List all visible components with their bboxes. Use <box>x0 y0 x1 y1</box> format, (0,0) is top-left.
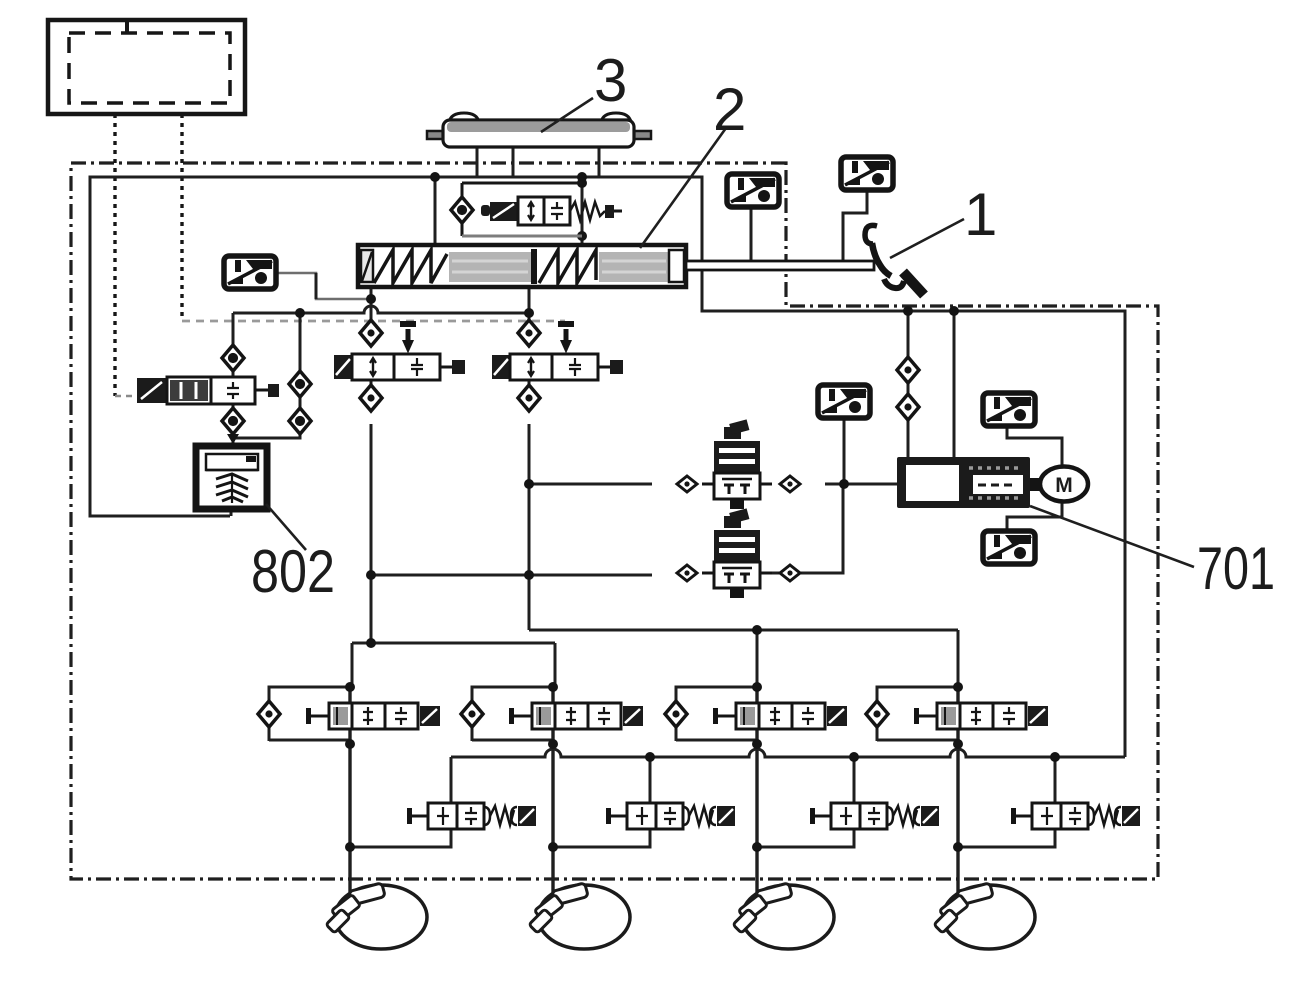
svg-text:701: 701 <box>1197 535 1275 602</box>
svg-text:3: 3 <box>594 47 627 114</box>
svg-text:802: 802 <box>251 538 335 605</box>
svg-text:M: M <box>1055 474 1073 497</box>
svg-text:1: 1 <box>964 181 997 248</box>
svg-text:2: 2 <box>713 76 746 143</box>
